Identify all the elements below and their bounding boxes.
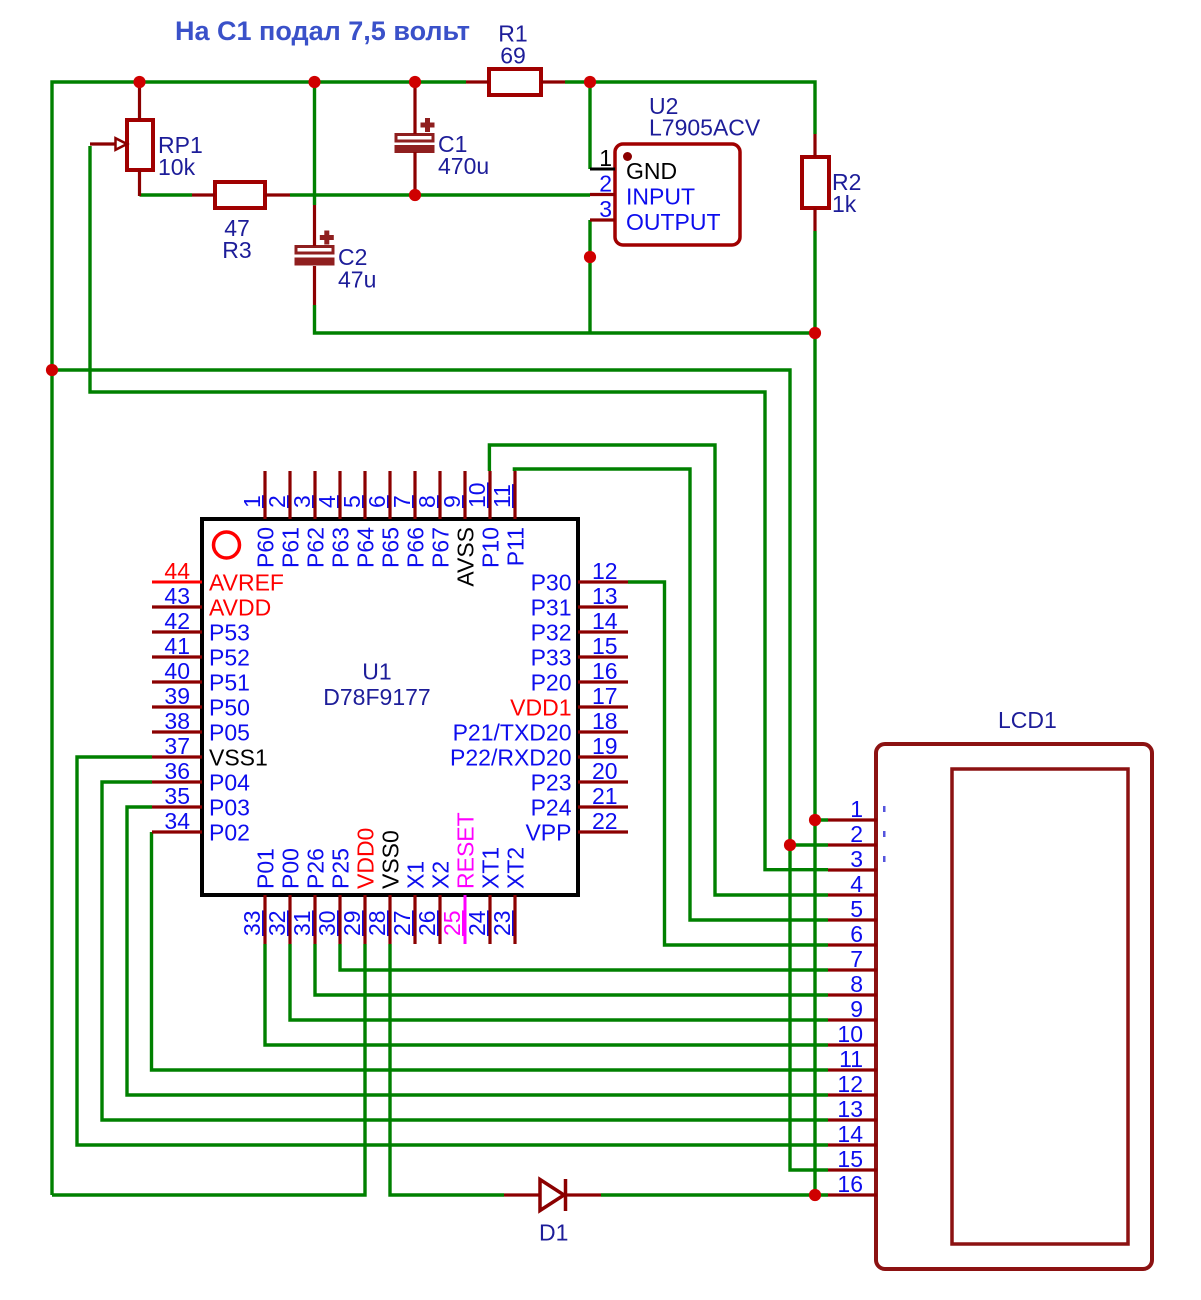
svg-text:GND: GND: [626, 158, 677, 184]
svg-text:U1: U1: [362, 659, 391, 685]
svg-text:1: 1: [599, 145, 612, 171]
svg-text:D1: D1: [539, 1220, 568, 1246]
svg-text:P62: P62: [303, 527, 329, 568]
svg-text:P67: P67: [428, 527, 454, 568]
svg-text:4: 4: [314, 495, 340, 508]
svg-text:P61: P61: [278, 527, 304, 568]
svg-text:AVREF: AVREF: [209, 570, 284, 596]
svg-text:P00: P00: [278, 848, 304, 889]
svg-text:38: 38: [164, 708, 190, 734]
svg-text:37: 37: [164, 733, 190, 759]
svg-text:10: 10: [837, 1021, 863, 1047]
svg-text:L7905ACV: L7905ACV: [649, 115, 761, 141]
svg-text:P60: P60: [253, 527, 279, 568]
svg-text:35: 35: [164, 783, 190, 809]
svg-text:23: 23: [489, 910, 515, 936]
svg-text:14: 14: [592, 608, 618, 634]
svg-text:P20: P20: [531, 670, 572, 696]
svg-text:На С1 подал 7,5 вольт: На С1 подал 7,5 вольт: [175, 16, 470, 46]
svg-text:2: 2: [264, 495, 290, 508]
svg-text:26: 26: [414, 910, 440, 936]
svg-text:1k: 1k: [832, 191, 857, 217]
svg-text:12: 12: [592, 558, 618, 584]
svg-text:22: 22: [592, 808, 618, 834]
svg-text:14: 14: [837, 1121, 863, 1147]
svg-text:D78F9177: D78F9177: [323, 684, 430, 710]
svg-text:6: 6: [850, 921, 863, 947]
svg-text:P50: P50: [209, 695, 250, 721]
svg-text:34: 34: [164, 808, 190, 834]
svg-text:9: 9: [439, 495, 465, 508]
svg-text:69: 69: [500, 43, 526, 69]
svg-text:28: 28: [364, 910, 390, 936]
svg-text:P22/RXD20: P22/RXD20: [450, 745, 571, 771]
svg-text:19: 19: [592, 733, 618, 759]
svg-text:7: 7: [850, 946, 863, 972]
svg-text:P05: P05: [209, 720, 250, 746]
svg-text:33: 33: [239, 910, 265, 936]
svg-text:VSS0: VSS0: [378, 830, 404, 889]
svg-text:470u: 470u: [438, 153, 489, 179]
svg-text:RESET: RESET: [453, 812, 479, 889]
svg-text:3: 3: [289, 495, 315, 508]
svg-text:36: 36: [164, 758, 190, 784]
svg-text:P30: P30: [531, 570, 572, 596]
svg-text:13: 13: [837, 1096, 863, 1122]
svg-text:44: 44: [164, 558, 190, 584]
svg-text:8: 8: [414, 495, 440, 508]
svg-text:P03: P03: [209, 795, 250, 821]
svg-text:6: 6: [364, 495, 390, 508]
svg-text:31: 31: [289, 910, 315, 936]
svg-text:47u: 47u: [338, 267, 376, 293]
svg-text:30: 30: [314, 910, 340, 936]
svg-text:2: 2: [599, 171, 612, 197]
svg-text:P65: P65: [378, 527, 404, 568]
svg-text:20: 20: [592, 758, 618, 784]
svg-text:41: 41: [164, 633, 190, 659]
svg-text:5: 5: [850, 896, 863, 922]
svg-text:2: 2: [850, 821, 863, 847]
svg-text:1: 1: [850, 796, 863, 822]
svg-text:VSS1: VSS1: [209, 745, 268, 771]
svg-text:8: 8: [850, 971, 863, 997]
svg-text:17: 17: [592, 683, 618, 709]
svg-text:XT2: XT2: [503, 847, 529, 889]
svg-text:LCD1: LCD1: [998, 707, 1057, 733]
svg-text:16: 16: [837, 1171, 863, 1197]
svg-text:25: 25: [439, 910, 465, 936]
svg-text:P26: P26: [303, 848, 329, 889]
svg-text:24: 24: [464, 910, 490, 936]
svg-text:R3: R3: [222, 237, 251, 263]
svg-text:VDD0: VDD0: [353, 828, 379, 889]
svg-text:P32: P32: [531, 620, 572, 646]
svg-text:P21/TXD20: P21/TXD20: [453, 720, 572, 746]
svg-text:10: 10: [464, 482, 490, 508]
svg-text:P64: P64: [353, 527, 379, 568]
svg-text:P02: P02: [209, 820, 250, 846]
svg-text:16: 16: [592, 658, 618, 684]
svg-text:P10: P10: [478, 527, 504, 568]
svg-text:P04: P04: [209, 770, 250, 796]
svg-text:X1: X1: [403, 861, 429, 889]
svg-text:P52: P52: [209, 645, 250, 671]
svg-text:XT1: XT1: [478, 847, 504, 889]
svg-text:15: 15: [837, 1146, 863, 1172]
svg-text:15: 15: [592, 633, 618, 659]
svg-text:43: 43: [164, 583, 190, 609]
svg-text:INPUT: INPUT: [626, 184, 695, 210]
svg-text:9: 9: [850, 996, 863, 1022]
svg-text:29: 29: [339, 910, 365, 936]
svg-text:AVSS: AVSS: [453, 527, 479, 587]
svg-text:P33: P33: [531, 645, 572, 671]
svg-text:18: 18: [592, 708, 618, 734]
svg-text:11: 11: [489, 484, 515, 508]
svg-text:P66: P66: [403, 527, 429, 568]
svg-text:39: 39: [164, 683, 190, 709]
svg-text:32: 32: [264, 910, 290, 936]
svg-text:1: 1: [239, 495, 265, 508]
svg-text:10k: 10k: [158, 154, 196, 180]
svg-text:40: 40: [164, 658, 190, 684]
svg-text:21: 21: [592, 783, 618, 809]
svg-text:42: 42: [164, 608, 190, 634]
svg-text:P24: P24: [531, 795, 572, 821]
svg-text:4: 4: [850, 871, 863, 897]
svg-text:P23: P23: [531, 770, 572, 796]
svg-text:11: 11: [839, 1046, 863, 1072]
svg-text:OUTPUT: OUTPUT: [626, 209, 721, 235]
svg-text:3: 3: [850, 846, 863, 872]
svg-text:P53: P53: [209, 620, 250, 646]
svg-text:27: 27: [389, 910, 415, 936]
svg-text:7: 7: [389, 495, 415, 508]
svg-text:P63: P63: [328, 527, 354, 568]
svg-text:AVDD: AVDD: [209, 595, 271, 621]
svg-text:12: 12: [837, 1071, 863, 1097]
svg-text:VPP: VPP: [525, 820, 571, 846]
svg-text:P11: P11: [503, 527, 529, 566]
svg-text:P51: P51: [209, 670, 250, 696]
svg-text:P25: P25: [328, 848, 354, 889]
svg-text:P31: P31: [531, 595, 572, 621]
svg-text:5: 5: [339, 495, 365, 508]
svg-text:13: 13: [592, 583, 618, 609]
svg-text:VDD1: VDD1: [510, 695, 571, 721]
svg-text:P01: P01: [253, 848, 279, 889]
svg-text:X2: X2: [428, 861, 454, 889]
svg-text:3: 3: [599, 196, 612, 222]
